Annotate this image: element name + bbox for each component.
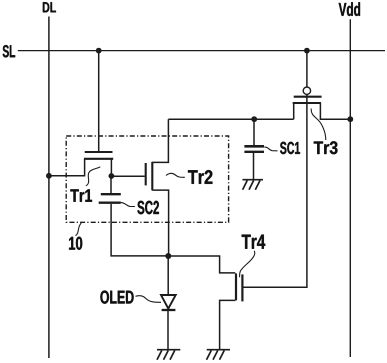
junction on DL at Tr1 source bbox=[46, 173, 52, 179]
transistor Tr1 channel bar bbox=[84, 158, 113, 160]
capacitor SC2 top plate bbox=[101, 193, 121, 195]
wire: Tr1 drain leg down to node A bbox=[110, 159, 112, 176]
ground below Tr4 bbox=[207, 350, 231, 360]
wire: SC2 bottom to cathode node bbox=[111, 204, 168, 256]
junction on Vdd rail bbox=[347, 116, 353, 122]
net label SL bbox=[3, 45, 15, 57]
leader for OLED bbox=[136, 296, 162, 303]
wire: OLED cathode to ground bbox=[167, 310, 169, 349]
OLED diode triangle bbox=[161, 295, 176, 309]
label Tr2 bbox=[188, 170, 212, 184]
leader for 10 bbox=[76, 223, 82, 236]
wire: cathode node down to OLED anode bbox=[167, 256, 169, 295]
junction on SL at Tr3 gate column bbox=[304, 48, 310, 54]
junction: SC1 tap on top node line bbox=[251, 116, 257, 122]
wire: node A down to SC2 bbox=[110, 176, 112, 193]
wire: Tr2 source stub down to cathode node bbox=[152, 190, 168, 256]
OLED diode cathode bar bbox=[162, 309, 176, 311]
transistor Tr3 gate bar bbox=[294, 96, 322, 98]
leader for Tr3 bbox=[311, 109, 326, 141]
transistor Tr4 channel bar bbox=[235, 273, 237, 300]
net label Vdd bbox=[339, 2, 360, 16]
wire: data line DL vertical bbox=[48, 17, 50, 359]
wire: SL down to Tr3 bubble bbox=[306, 51, 308, 87]
wire: Tr4 source to ground bbox=[220, 300, 236, 349]
wire: SC1 bottom to ground bbox=[253, 153, 255, 179]
transistor Tr2 gate bar bbox=[145, 163, 147, 185]
pixel circuit boundary box 10 (chain line) bbox=[66, 136, 228, 222]
transistor Tr3 bubble bbox=[303, 87, 310, 94]
label Tr4 bbox=[242, 235, 266, 249]
leader for SC1 bbox=[264, 147, 277, 151]
leader for Tr1 bbox=[86, 167, 101, 186]
wire: Tr3 right leg to Vdd bbox=[320, 103, 350, 119]
leader for Tr4 bbox=[240, 251, 255, 277]
capacitor SC1 bottom plate bbox=[244, 151, 264, 153]
label OLED bbox=[100, 291, 133, 304]
wire: SL down to Tr1 gate bbox=[98, 51, 100, 151]
wire: top node down to SC1 bbox=[253, 119, 255, 145]
transistor Tr1 gate bar bbox=[85, 151, 113, 153]
transistor Tr2 channel bar bbox=[151, 162, 153, 191]
label Tr3 bbox=[314, 141, 338, 154]
wire: cathode node to Tr4 drain bbox=[168, 256, 235, 273]
wire: Tr2 drain stub up to top node line bbox=[152, 119, 168, 162]
capacitor SC2 bottom plate bbox=[99, 201, 121, 203]
ground below OLED bbox=[157, 350, 180, 360]
wire: Tr1 source leg to DL bbox=[49, 159, 85, 176]
junction node A bbox=[109, 173, 115, 179]
label SC1 bbox=[280, 142, 300, 154]
wire: Tr3 left leg to top node line bbox=[293, 103, 295, 119]
label Tr1 bbox=[70, 189, 92, 201]
wire: power rail Vdd vertical bbox=[349, 19, 351, 357]
net label DL bbox=[43, 2, 56, 12]
junction: cathode node bbox=[165, 253, 171, 259]
label SC2 bbox=[137, 201, 159, 214]
capacitor SC1 top plate bbox=[244, 145, 264, 148]
transistor Tr4 gate bar bbox=[241, 274, 243, 301]
leader for SC2 bbox=[121, 202, 135, 206]
wire: Tr3 center column down to Tr4 gate bbox=[243, 94, 307, 287]
transistor Tr3 channel bar bbox=[293, 102, 321, 104]
wire: node A to Tr2 gate bbox=[111, 175, 144, 177]
leader for Tr2 bbox=[166, 173, 185, 177]
junction on SL at Tr1 gate bbox=[96, 48, 102, 54]
wire: scan line SL horizontal bbox=[18, 50, 385, 52]
wire: top node line bbox=[168, 118, 293, 120]
ground below SC1 bbox=[243, 180, 264, 190]
label 10 bbox=[69, 237, 82, 250]
